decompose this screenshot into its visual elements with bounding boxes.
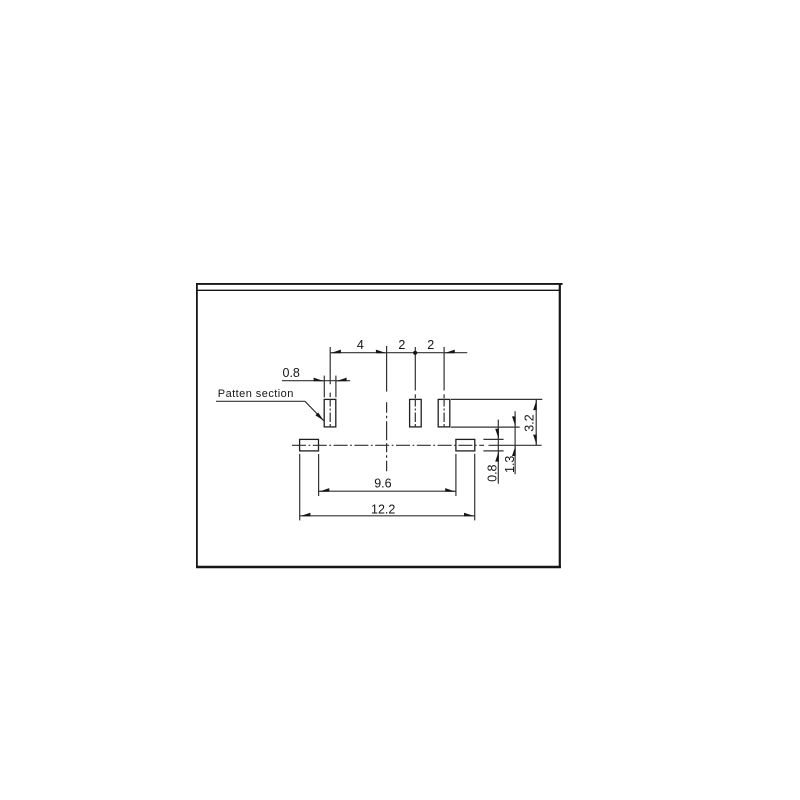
- frame left edge: [196, 283, 198, 568]
- dim 1.3 line: [514, 411, 516, 474]
- svg-text:9.6: 9.6: [374, 477, 391, 491]
- svg-text:Patten section: Patten section: [218, 388, 294, 400]
- leader arrowhead: [315, 413, 324, 421]
- arrow dim2 right outside: [444, 350, 455, 354]
- svg-text:2: 2: [398, 338, 405, 352]
- pad P1 (left top pattern pad): [324, 399, 336, 427]
- svg-text:0.8: 0.8: [485, 464, 499, 481]
- arrow 0.8R top (points down, outside above): [495, 429, 499, 440]
- ext 12.2 right: [474, 454, 476, 521]
- arrow 12.2 right: [464, 513, 475, 517]
- arrow 9.6 left: [319, 488, 330, 492]
- arrow dim4 right: [376, 350, 387, 354]
- dim line top (4/2/2): [330, 352, 467, 354]
- pad P3 (right top pattern pad): [438, 399, 450, 427]
- dot separator dim2: [413, 351, 417, 355]
- svg-text:2: 2: [427, 338, 434, 352]
- dim 0.8 top-left line: [282, 380, 350, 382]
- ext line 0.8 right: [335, 376, 337, 398]
- frame bottom edge: [196, 566, 561, 568]
- dim 0.8 right line: [497, 420, 499, 484]
- arrow 9.6 right: [445, 488, 456, 492]
- ext line 0.8 left: [323, 376, 325, 398]
- arrow 0.8 left (points right): [314, 378, 325, 382]
- ext top pad top edge (right): [451, 398, 542, 400]
- dim 12.2 line: [300, 515, 475, 517]
- arrow 3.2 top (points up): [533, 399, 537, 410]
- ext bottom pad bottom edge (right): [483, 450, 503, 452]
- horizontal center line (chain): [292, 444, 484, 446]
- pad P4 (left bottom mounting pad): [300, 439, 319, 451]
- svg-text:12.2: 12.2: [371, 503, 395, 517]
- svg-text:4: 4: [357, 338, 364, 352]
- dim 3.2 line: [535, 399, 537, 445]
- svg-text:3.2: 3.2: [523, 414, 537, 431]
- arrow 3.2 bottom (points down): [533, 435, 537, 446]
- arrow dim4 left: [330, 350, 341, 354]
- arrow 0.8R bottom (points up, outside below): [495, 451, 499, 462]
- ext 9.6 right: [455, 454, 457, 496]
- leader line diagonal: [305, 401, 324, 421]
- frame right edge: [559, 284, 561, 568]
- horizontal center line solid right part: [489, 444, 542, 446]
- svg-text:1.3: 1.3: [503, 456, 517, 473]
- centerline P1 vertical (ext of dim 4): [329, 347, 331, 384]
- dim 9.6 line: [319, 490, 456, 492]
- ext bottom pad top edge (right): [483, 438, 503, 440]
- svg-text:0.8: 0.8: [283, 366, 300, 380]
- ext top pad bottom edge (right): [451, 426, 520, 428]
- frame top line 2: [197, 289, 560, 291]
- pad P2 (middle top pattern pad): [410, 399, 422, 427]
- centerline P3 vertical (ext of dim 2): [443, 347, 445, 391]
- frame top line 1: [196, 283, 563, 285]
- ext 9.6 left: [318, 454, 320, 496]
- arrow 1.3 bottom (points up, outside below): [512, 445, 516, 456]
- main vertical center line: [386, 346, 388, 392]
- centerline P2 vertical: [414, 347, 416, 391]
- pad P5 (right bottom mounting pad): [456, 439, 475, 451]
- arrow 1.3 top (points down, outside above): [512, 416, 516, 427]
- arrow 12.2 left: [300, 513, 311, 517]
- arrow 0.8 right (points left): [336, 378, 347, 382]
- leader line horizontal: [216, 400, 305, 402]
- ext 12.2 left: [299, 454, 301, 521]
